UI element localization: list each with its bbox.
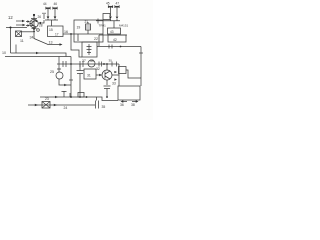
arrowhead (60, 43, 63, 46)
label 16 (64, 30, 68, 34)
label TR row (99, 24, 129, 28)
capacitor stub C1 (42, 13, 46, 19)
label 45 (106, 2, 110, 6)
wire bus A (11, 53, 67, 57)
svg-text:10: 10 (2, 51, 6, 55)
label 10 (2, 51, 6, 55)
wire box to enclosure (63, 33, 103, 35)
arrows below box (123, 101, 137, 103)
stub tick (15, 45, 17, 54)
label 35 (102, 105, 106, 109)
svg-text:43: 43 (110, 30, 114, 34)
label 44 (43, 2, 47, 6)
electrode E4 (115, 5, 120, 19)
node top dot (33, 14, 35, 16)
svg-text:M4151: M4151 (119, 24, 129, 28)
wire spine (33, 15, 35, 39)
capacitor branch x80 (77, 64, 84, 97)
electrode E1 (46, 7, 51, 19)
capacitor ticks (63, 61, 66, 67)
meter box 42 (108, 35, 126, 42)
svg-text:35: 35 (102, 105, 106, 109)
wire bus C (57, 63, 119, 65)
capacitor ticks 2 (80, 61, 83, 67)
label 23 (45, 97, 49, 101)
label 25 (50, 70, 54, 74)
amplifier box 15 (48, 26, 64, 37)
svg-text:11: 11 (20, 39, 24, 43)
wire bus right (99, 34, 127, 36)
label 47 (116, 2, 120, 6)
wire bus E (28, 104, 95, 106)
tick on right vertical (139, 52, 143, 54)
electrode E2 (53, 7, 58, 19)
svg-text:24: 24 (64, 106, 68, 110)
label 30 (109, 59, 113, 63)
label 32 (96, 67, 100, 71)
meter 25 branch (56, 57, 71, 87)
corner tick (97, 19, 99, 24)
label 28 (39, 24, 43, 28)
stub 22 (77, 34, 79, 41)
label 36 (120, 103, 124, 107)
transistor Q2 (102, 64, 112, 85)
ticks pair (99, 62, 102, 67)
tick bar (31, 18, 37, 20)
bias box 31 (84, 69, 96, 79)
wire Q2 right (112, 74, 119, 76)
svg-text:34: 34 (30, 36, 34, 40)
label 24 (64, 106, 68, 110)
capacitor 35 (96, 97, 99, 109)
junction dots (70, 96, 72, 98)
svg-text:38: 38 (131, 103, 135, 107)
wire link to Q1 (41, 20, 45, 23)
small box on bus D (78, 93, 84, 98)
wire vertical left (10, 28, 12, 54)
wire electrode bar right (96, 19, 120, 28)
svg-text:39: 39 (90, 59, 94, 63)
svg-text:21: 21 (85, 20, 89, 24)
junction dot q2 (106, 63, 108, 65)
svg-text:45: 45 (106, 2, 110, 6)
label 26 (38, 15, 42, 19)
svg-text:33: 33 (112, 82, 116, 86)
wire right vertical (140, 47, 142, 87)
wire bus B (5, 56, 71, 58)
tick (111, 62, 113, 67)
inner specks (36, 20, 38, 22)
label 12 (8, 15, 13, 20)
wire vertical x119 (118, 64, 120, 86)
arrow on bus D (55, 96, 58, 99)
svg-text:44: 44 (43, 2, 47, 6)
svg-text:26: 26 (38, 15, 42, 19)
connector box top (103, 14, 110, 20)
svg-text:17: 17 (55, 33, 59, 37)
junction (103, 63, 105, 65)
collector arrow (114, 71, 117, 81)
wire down right (98, 35, 100, 46)
label 46 (54, 2, 58, 6)
wire diagonal down (34, 39, 61, 45)
detector box 43 (108, 28, 121, 34)
junction node (70, 33, 72, 35)
output box R (118, 86, 140, 100)
svg-text:12: 12 (8, 15, 13, 20)
wire line to right edge (97, 46, 141, 48)
transistor Q1 stack (26, 14, 38, 39)
tick bar low (32, 28, 37, 30)
svg-text:42: 42 (113, 38, 117, 42)
svg-text:30: 30 (109, 59, 113, 63)
label 22 (94, 37, 98, 41)
filter box M (82, 42, 97, 57)
svg-text:15: 15 (49, 28, 53, 32)
wire bus D (40, 97, 118, 101)
coupling ticks (109, 45, 112, 49)
svg-text:28: 28 (39, 24, 43, 28)
sensor 21 (85, 20, 91, 34)
svg-text:37: 37 (82, 59, 86, 63)
tick on vertical (69, 79, 73, 81)
leader arrow to base (16, 20, 23, 22)
svg-text:22: 22 (94, 37, 98, 41)
node dots (33, 28, 35, 30)
svg-text:13: 13 (49, 41, 53, 45)
junction (70, 63, 72, 65)
electrode E3 (108, 5, 113, 19)
arrow into Q2 (96, 74, 100, 76)
crystal X1 box (16, 31, 34, 37)
label 34 (30, 36, 34, 40)
node junction dot (10, 27, 12, 29)
wire crystal to stack (22, 31, 34, 33)
svg-text:TR41: TR41 (99, 24, 107, 28)
svg-text:16: 16 (64, 30, 68, 34)
crystal box 24 (42, 102, 50, 109)
junction dot (120, 46, 122, 48)
svg-text:25: 25 (50, 70, 54, 74)
terminal circle speck (37, 29, 40, 32)
component 40 (119, 67, 142, 79)
component ticks on bus D (62, 91, 71, 97)
wire long vertical (70, 57, 72, 98)
svg-text:31: 31 (87, 74, 91, 78)
svg-text:47: 47 (116, 2, 120, 6)
emitter arrows (26, 22, 28, 26)
wire step down (71, 34, 82, 57)
arrowhead (35, 104, 38, 107)
wire input left (6, 27, 27, 29)
arrow on bus A (36, 52, 39, 55)
capacitor below Q2 (104, 86, 111, 97)
label 38 (131, 103, 135, 107)
svg-text:19: 19 (77, 26, 81, 30)
enclosure box (74, 20, 103, 42)
label 33 (112, 82, 116, 86)
arrowhead 2 (54, 104, 57, 107)
wire electrode bar (45, 19, 58, 26)
label 19 (77, 26, 81, 30)
transistor Q1 circle (30, 19, 38, 27)
svg-text:32: 32 (96, 67, 100, 71)
svg-text:46: 46 (54, 2, 58, 6)
label 13 (49, 41, 53, 45)
base bar (32, 20, 36, 27)
svg-text:23: 23 (45, 97, 49, 101)
leader arrow 2 (16, 24, 23, 26)
label 11 (20, 39, 24, 43)
label 37 (82, 59, 94, 63)
transformer circle 28 (88, 60, 95, 67)
tick right (116, 62, 118, 67)
svg-text:36: 36 (120, 103, 124, 107)
